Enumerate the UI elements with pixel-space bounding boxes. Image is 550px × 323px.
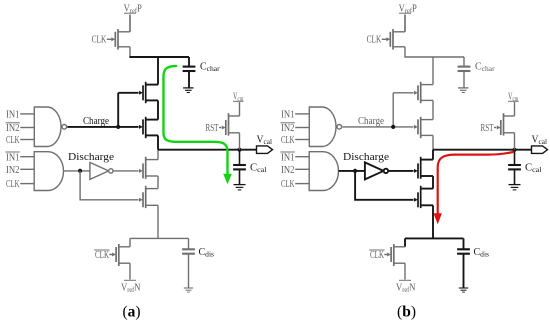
svg-text:IN1: IN1 [6,110,20,121]
svg-text:CLK: CLK [95,250,110,261]
svg-text:Vcal: Vcal [532,135,548,147]
svg-text:(b): (b) [397,304,416,321]
svg-text:Cdis: Cdis [199,247,215,258]
svg-text:Cchar: Cchar [200,61,220,73]
svg-text:Ccal: Ccal [250,163,267,175]
svg-text:CLK: CLK [6,135,20,146]
svg-text:Vcal: Vcal [257,135,273,147]
svg-text:IN1: IN1 [6,152,20,163]
svg-text:Discharge: Discharge [343,152,390,163]
svg-text:IN2: IN2 [281,123,295,134]
svg-text:(a): (a) [122,304,140,321]
svg-text:IN2: IN2 [6,123,20,134]
svg-text:Cdis: Cdis [474,247,490,258]
svg-text:IN2: IN2 [6,165,20,176]
svg-text:Charge: Charge [83,116,110,127]
svg-text:CLK: CLK [6,179,20,190]
svg-text:CLK: CLK [370,250,385,261]
svg-text:RST: RST [206,123,219,134]
svg-text:CLK: CLK [92,35,107,46]
svg-text:IN2: IN2 [281,165,295,176]
svg-text:Cchar: Cchar [475,61,495,73]
svg-text:IN1: IN1 [281,152,295,163]
svg-text:RST: RST [481,123,494,134]
svg-text:Ccal: Ccal [525,163,542,175]
svg-text:VrefN: VrefN [121,283,141,295]
svg-text:VrefN: VrefN [396,283,416,295]
svg-text:CLK: CLK [281,135,295,146]
svg-text:Charge: Charge [358,116,385,127]
svg-text:CLK: CLK [367,35,382,46]
svg-text:IN1: IN1 [281,110,295,121]
svg-text:CLK: CLK [281,179,295,190]
svg-text:Discharge: Discharge [68,152,115,163]
